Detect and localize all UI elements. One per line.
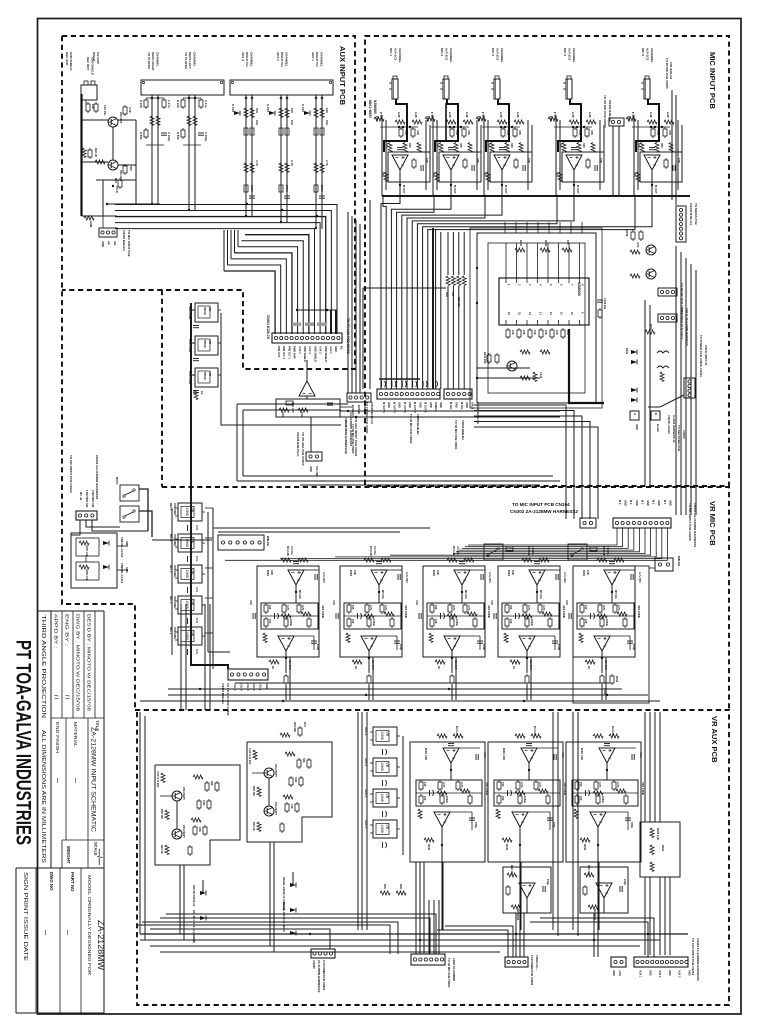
- VR MIC channel 4 gain network: [502, 603, 559, 629]
- svg-text:GND: GND: [398, 402, 402, 408]
- VR AUX channel 2 gain network: [494, 780, 560, 806]
- svg-text:+B: +B: [107, 241, 111, 245]
- svg-text:10K: 10K: [353, 570, 357, 575]
- svg-text:10K: 10K: [255, 120, 259, 125]
- svg-text:CN304 ZA-2128MW HARNESS4: CN304 ZA-2128MW HARNESS4: [95, 455, 99, 500]
- svg-text:CN605: CN605: [682, 430, 686, 439]
- svg-text:10K: 10K: [511, 570, 515, 575]
- svg-text:AUX 3: AUX 3: [678, 970, 681, 978]
- svg-text:33K: 33K: [290, 804, 294, 809]
- bus junction dots: [151, 203, 153, 205]
- svg-text:GND: GND: [657, 500, 661, 506]
- AUX input jack strip B: [230, 80, 333, 95]
- svg-text:4.7K: 4.7K: [286, 605, 290, 611]
- svg-text:R40 150: R40 150: [160, 809, 164, 819]
- preamp 1 transistor Q1: [172, 791, 182, 801]
- svg-text:CN101 B6P3 VL: CN101 B6P3 VL: [704, 345, 708, 366]
- connector CN302 10-pin: [613, 518, 671, 528]
- volume pot VR402: [370, 758, 400, 776]
- svg-text:C 47u: C 47u: [204, 100, 208, 108]
- svg-text:CN302 ZA-2128MW HARNESS2: CN302 ZA-2128MW HARNESS2: [510, 509, 578, 514]
- svg-text:C3 47u: C3 47u: [373, 546, 377, 555]
- svg-text:1K: 1K: [512, 666, 516, 669]
- svg-text:10K: 10K: [511, 330, 515, 335]
- svg-text:TO MIC INPUT PCB: TO MIC INPUT PCB: [127, 230, 131, 256]
- svg-text:10KB: 10KB: [601, 796, 605, 803]
- MIC channel 4 drop wires: [555, 115, 557, 196]
- MIC channel 2 op-amp M12: [439, 152, 481, 182]
- svg-text:R85 330: R85 330: [457, 297, 461, 307]
- svg-text:TO VR MIC PCB CN301: TO VR MIC PCB CN301: [365, 402, 369, 434]
- frame top drop wires: [504, 222, 506, 233]
- svg-text:/ /: / /: [53, 695, 59, 700]
- svg-text:GND SHIELD: GND SHIELD: [91, 57, 95, 75]
- svg-text:PART NO: PART NO: [70, 872, 75, 892]
- svg-text:100p: 100p: [316, 644, 320, 650]
- svg-text:R401 10K: R401 10K: [502, 748, 506, 760]
- svg-text:VOL 1: VOL 1: [259, 683, 263, 691]
- svg-text:DECK LEFT: DECK LEFT: [188, 52, 192, 69]
- svg-text:D101: D101: [625, 348, 629, 355]
- VR MIC channel 5 op-amp A: [604, 570, 620, 585]
- svg-text:TO POWER PCB CN305: TO POWER PCB CN305: [530, 955, 534, 986]
- AUX input jack strip A: [141, 80, 224, 95]
- resistor row inside frame top: [515, 248, 525, 252]
- svg-text:AUX 2: AUX 2: [319, 346, 323, 354]
- svg-text:GND SHIELD: GND SHIELD: [303, 346, 307, 362]
- svg-text:100K: 100K: [89, 221, 93, 227]
- svg-text:ALL DIMENSIONS ARE IN MILL: ALL DIMENSIONS ARE IN MILLIMETERS: [40, 730, 46, 864]
- VR column wires: [171, 508, 173, 655]
- connector CN303 B5B-EH 6-pin: [228, 669, 268, 680]
- svg-text:100K: 100K: [250, 185, 254, 192]
- svg-text:A-2240 HARNESS 12: A-2240 HARNESS 12: [672, 415, 676, 443]
- svg-text:GND: GND: [646, 500, 650, 506]
- volume pot VR401: [370, 727, 400, 745]
- svg-text:DECK RIGHT: DECK RIGHT: [151, 52, 155, 71]
- svg-text:AUX INPUT PCB: AUX INPUT PCB: [338, 46, 347, 106]
- vertical bundle from AUX bus down to CN107: [347, 212, 349, 393]
- svg-text:TO PLAYER: TO PLAYER: [184, 52, 188, 70]
- svg-text:150: 150: [351, 619, 355, 624]
- connector CN201 B128-CH 13-pin: [272, 333, 342, 343]
- svg-text:150: 150: [351, 605, 355, 610]
- svg-text:R24: R24: [114, 178, 118, 183]
- scattered junction dots on buses: [199, 688, 201, 690]
- switch-to-VRMIC link wire: [152, 539, 212, 541]
- VR AUX channel 3 gain network: [572, 780, 638, 806]
- svg-text:4.7u: 4.7u: [195, 649, 199, 655]
- svg-text:M101~M153: M101~M153: [368, 100, 372, 118]
- svg-text:5.6K: 5.6K: [202, 800, 206, 806]
- svg-text:150: 150: [423, 782, 427, 787]
- svg-text:CR02 10K: CR02 10K: [85, 569, 88, 581]
- svg-text:ZA-2128MW HARNESS2(3): ZA-2128MW HARNESS2(3): [344, 420, 348, 454]
- svg-text:2SC2320Y: 2SC2320Y: [274, 764, 278, 777]
- svg-text:GND SHIELD: GND SHIELD: [324, 346, 328, 362]
- svg-text:R352: R352: [615, 676, 619, 683]
- svg-text:47K: 47K: [455, 130, 459, 135]
- thick feed wire left of trim pots: [191, 303, 228, 669]
- svg-text:R3 2.2K: R3 2.2K: [452, 546, 456, 556]
- components under IC: [506, 328, 510, 339]
- svg-text:CHANNEL: CHANNEL: [192, 52, 196, 67]
- resistor cluster under pin group x=281: [269, 111, 275, 116]
- svg-text:R3 2.2K: R3 2.2K: [286, 546, 290, 556]
- channel-output routing to CN105 (rows + drops): [381, 196, 400, 389]
- svg-text:M5 SIG: M5 SIG: [381, 590, 385, 599]
- svg-text:4.7K: 4.7K: [467, 605, 471, 611]
- svg-text:2.2K: 2.2K: [397, 112, 401, 118]
- svg-text:4.7K: 4.7K: [460, 782, 464, 788]
- connector CN403 6-pin: [411, 954, 445, 965]
- svg-text:CAP 4.7J 20V: CAP 4.7J 20V: [156, 771, 160, 788]
- svg-text:GND SHIELD: GND SHIELD: [69, 52, 73, 71]
- AUX left REC OUT jack: [81, 85, 97, 100]
- svg-text:2.2K: 2.2K: [571, 112, 575, 118]
- svg-text:CN61 BL-GATA6: CN61 BL-GATA6: [120, 537, 124, 558]
- svg-text:330: 330: [510, 143, 514, 148]
- svg-text:B+24V: B+24V: [656, 424, 660, 432]
- svg-text:150: 150: [584, 605, 588, 610]
- VR MIC channel 1 enclosure: [257, 566, 319, 657]
- svg-text:VOL 4: VOL 4: [239, 683, 243, 691]
- right side small parts: [645, 330, 655, 334]
- svg-text:CN105 B#18-CH: CN105 B#18-CH: [370, 402, 374, 424]
- VR AUX channel 3 enclosure: [566, 742, 641, 862]
- svg-text:—: —: [72, 778, 78, 783]
- svg-text:RIGHT CH: RIGHT CH: [315, 52, 319, 67]
- svg-text:VR3 10KB: VR3 10KB: [637, 605, 641, 618]
- svg-text:M 4: M 4: [629, 500, 633, 505]
- svg-text:CHANNEL: CHANNEL: [155, 52, 159, 67]
- svg-text:10K: 10K: [325, 108, 329, 113]
- svg-text:C 47u: C 47u: [167, 100, 171, 108]
- svg-text:GND: GND: [635, 500, 639, 506]
- svg-text:CHANNEL: CHANNEL: [572, 48, 576, 63]
- svg-text:AUX 1: AUX 1: [329, 346, 333, 354]
- svg-text:CN106~CN110: CN106~CN110: [667, 415, 671, 434]
- svg-text:TO VR MIC PCB CN302: TO VR MIC PCB CN302: [409, 414, 413, 444]
- svg-text:R421: R421: [661, 845, 665, 852]
- VR AUX right feed verticals: [644, 712, 646, 822]
- IC top pin wires: [505, 243, 507, 278]
- svg-text:GND: GND: [668, 500, 672, 506]
- svg-text:100p: 100p: [474, 822, 478, 828]
- svg-text:150: 150: [501, 796, 505, 801]
- svg-text:VOL 5: VOL 5: [233, 683, 237, 691]
- svg-text:1K: 1K: [271, 666, 275, 669]
- svg-text:47K: 47K: [404, 130, 408, 135]
- svg-text:TO MIC INPUT PCB CN102: TO MIC INPUT PCB CN102: [69, 455, 73, 493]
- svg-text:#LR-3C2: #LR-3C2: [496, 48, 500, 61]
- svg-text:VOLUME: VOLUME: [173, 503, 177, 515]
- svg-text:R3 2.2K: R3 2.2K: [369, 546, 373, 556]
- svg-text:47K: 47K: [590, 130, 594, 135]
- MIC channel 1 drop wires: [381, 115, 383, 196]
- connector CN401 11-pin: [634, 957, 688, 967]
- VR AUX preamp block 2 enclosure: [247, 742, 332, 842]
- svg-text:M OUT: M OUT: [576, 185, 580, 194]
- svg-text:MIC INPUT PCB: MIC INPUT PCB: [708, 52, 717, 109]
- svg-text:4.7K: 4.7K: [369, 605, 373, 611]
- svg-text:R141: R141: [519, 240, 523, 247]
- IC isolation amp block U101: [499, 278, 589, 325]
- MIC ch5 side harness wires: [671, 90, 673, 200]
- svg-text:GND: GND: [265, 683, 269, 689]
- svg-text:330: 330: [459, 143, 463, 148]
- svg-text:R41 1K: R41 1K: [252, 822, 256, 831]
- svg-text:NJM4580: NJM4580: [516, 909, 520, 921]
- svg-text:150: 150: [423, 796, 427, 801]
- svg-text:TO MIC INPUT PCB CN104: TO MIC INPUT PCB CN104: [512, 502, 570, 507]
- volume pot VR404: [370, 820, 400, 838]
- svg-text:VR3 10KB: VR3 10KB: [404, 605, 408, 618]
- svg-text:GND: GND: [635, 424, 639, 430]
- svg-text:VOLUME: VOLUME: [173, 565, 177, 577]
- svg-text:10K: 10K: [91, 104, 95, 109]
- svg-text:M OUT: M OUT: [504, 185, 508, 194]
- svg-text:GND: GND: [387, 402, 391, 408]
- svg-text:MC +B: MC +B: [79, 492, 83, 500]
- svg-text:4.7K: 4.7K: [617, 605, 621, 611]
- switch S302: [568, 544, 587, 560]
- svg-text:M 5: M 5: [618, 500, 622, 505]
- VR MIC channel 1 op-amp A: [288, 570, 304, 585]
- svg-text:R410: R410: [427, 844, 431, 851]
- MIC channel 3 op-amp M13: [490, 152, 532, 182]
- VR MIC channel 2 op-amp B: [361, 636, 377, 651]
- svg-text:R40 150: R40 150: [252, 786, 256, 796]
- svg-text:2.2K: 2.2K: [666, 112, 670, 118]
- junction bar above CN105: [379, 378, 420, 380]
- svg-text:CN303 B5B-EH: CN303 B5B-EH: [221, 683, 225, 704]
- svg-text:TO VR MIC PCB CN303: TO VR MIC PCB CN303: [351, 424, 355, 454]
- svg-text:4.7K: 4.7K: [616, 782, 620, 788]
- svg-text:D43 BL-C9142-AF (RED): D43 BL-C9142-AF (RED): [282, 902, 286, 932]
- svg-text:10KB: 10KB: [605, 619, 609, 626]
- svg-text:100p: 100p: [482, 644, 486, 650]
- pin group B1 wires: [245, 95, 247, 217]
- svg-text:R4 2.2K: R4 2.2K: [611, 726, 615, 736]
- svg-text:M 3: M 3: [640, 500, 644, 505]
- svg-text:B2B-PH: B2B-PH: [677, 556, 681, 566]
- svg-text:4.7u 50V: 4.7u 50V: [638, 572, 642, 583]
- svg-text:CHANNEL: CHANNEL: [319, 52, 323, 67]
- VR AUX summing op-amp block 1: [503, 867, 551, 913]
- svg-text:C30: C30: [415, 600, 419, 605]
- svg-text:AUX 3: AUX 3: [308, 346, 312, 354]
- VR AUX channel 1 enclosure: [410, 742, 485, 862]
- svg-text:GND: GND: [688, 970, 691, 976]
- svg-text:100K: 100K: [320, 185, 324, 192]
- svg-text:R301: R301: [349, 570, 353, 577]
- svg-text:4.7u 50V: 4.7u 50V: [405, 572, 409, 583]
- svg-text:REC OUT: REC OUT: [86, 57, 90, 70]
- svg-text:TO VR AUX PCB CN402: TO VR AUX PCB CN402: [301, 432, 305, 466]
- svg-text:R142: R142: [544, 240, 548, 247]
- svg-text:R401 10K: R401 10K: [424, 748, 428, 760]
- svg-text:100p: 100p: [630, 822, 634, 828]
- svg-text:50KB: 50KB: [203, 340, 207, 349]
- svg-text:4.7K: 4.7K: [384, 605, 388, 611]
- svg-text:R45: R45: [383, 884, 387, 889]
- svg-text:M5 SIG: M5 SIG: [614, 590, 618, 599]
- MIC channel 1 op-amp M11: [388, 152, 430, 182]
- svg-text:2.2K: 2.2K: [649, 112, 653, 118]
- trim pot box VR201: [195, 303, 218, 322]
- resistor R210: [194, 390, 198, 400]
- svg-text:B: B: [654, 413, 658, 415]
- AUX left wires: [82, 119, 109, 121]
- svg-text:GND SHIELD: GND SHIELD: [313, 346, 317, 362]
- svg-text:47K: 47K: [416, 130, 420, 135]
- connector CN304 2-pin: [580, 518, 596, 528]
- summing cluster box: [276, 399, 340, 417]
- svg-text:M5 SIG: M5 SIG: [298, 590, 302, 599]
- VR MIC channel 2 enclosure: [340, 566, 402, 657]
- svg-text:4.7u: 4.7u: [195, 587, 199, 593]
- MIC channel 5 drop wires: [633, 115, 635, 196]
- right-edge vertical bundle: [675, 246, 677, 515]
- svg-text:56K: 56K: [302, 758, 306, 763]
- svg-text:2SC1815: 2SC1815: [119, 112, 123, 124]
- svg-text:#LR-3C2: #LR-3C2: [394, 48, 398, 61]
- svg-text:CN404 2A-...: CN404 2A-...: [535, 955, 539, 971]
- svg-text:VOLUME: VOLUME: [173, 596, 177, 608]
- volume pot VR305: [175, 627, 205, 645]
- svg-text:CAP 4.7J 20V: CAP 4.7J 20V: [248, 748, 252, 765]
- svg-text:TO PLAYER: TO PLAYER: [147, 52, 151, 70]
- strip corner pins: [142, 81, 144, 83]
- svg-text:C30: C30: [249, 600, 253, 605]
- transistor Q202: [108, 160, 118, 170]
- svg-text:R 10K: R 10K: [139, 100, 143, 108]
- VR MIC channel 3 output tail: [435, 660, 445, 664]
- transistor Q102: [646, 269, 656, 279]
- VR MIC channel 4 op-amp A: [529, 570, 545, 585]
- VR MIC channel 2 gain network: [344, 603, 401, 629]
- svg-text:CHANNEL: CHANNEL: [449, 48, 453, 63]
- svg-text:330: 330: [408, 143, 412, 148]
- volume pot VR303: [175, 565, 205, 583]
- svg-text:NC: NC: [339, 346, 343, 350]
- MIC channel 5 thick signal trace: [636, 99, 659, 152]
- svg-text:M OUT: M OUT: [402, 185, 406, 194]
- svg-text:330: 330: [660, 143, 664, 148]
- svg-text:TO MIC INPUT PCB CN105: TO MIC INPUT PCB CN105: [688, 503, 692, 541]
- svg-text:1K: 1K: [200, 391, 204, 395]
- thick bundle wire: [432, 228, 434, 389]
- svg-text:R401 10K: R401 10K: [580, 748, 584, 760]
- svg-text:VR4 10KB: VR4 10KB: [641, 782, 645, 795]
- dashed boundary AUX INPUT PCB region: [62, 36, 355, 710]
- svg-text:CN108 B2B-PH-K: CN108 B2B-PH-K: [296, 432, 300, 457]
- preamp block 2 extra top resistors: [280, 733, 290, 737]
- pin group B2 wires: [280, 95, 282, 223]
- op-amp U201 apex-up: [299, 381, 315, 396]
- svg-text:100p: 100p: [632, 644, 636, 650]
- left elbow risers: [223, 230, 225, 271]
- svg-text:R301: R301: [582, 570, 586, 577]
- svg-text:CN301 ZA-2128MW HARNESS1: CN301 ZA-2128MW HARNESS1: [693, 503, 697, 548]
- svg-text:DWG BY : MINOTO W DEC/15/'0: DWG BY : MINOTO W DEC/15/'08: [76, 614, 81, 712]
- svg-text:100p: 100p: [623, 879, 627, 885]
- resistor cluster under pin group x=316: [304, 111, 310, 116]
- svg-text:R41 1K: R41 1K: [160, 845, 164, 854]
- svg-text:10KB: 10KB: [455, 619, 459, 626]
- svg-text:GND: GND: [465, 402, 469, 408]
- svg-text:1K4: 1K4: [303, 722, 307, 727]
- svg-text:4.7K: 4.7K: [301, 605, 305, 611]
- svg-text:150: 150: [584, 619, 588, 624]
- VR AUX summing op-amp block 2: [580, 867, 628, 913]
- svg-text:CN62 BL-GATA6: CN62 BL-GATA6: [120, 563, 124, 584]
- transistor Q101: [646, 245, 656, 255]
- MIC channel 2 input jack J102: [440, 76, 449, 99]
- volume pot VR301: [175, 503, 205, 521]
- svg-text:100p: 100p: [546, 879, 550, 885]
- trim pot box VR202: [195, 336, 218, 355]
- ch5 tail parts: [610, 674, 614, 685]
- CN201 bead row: [297, 309, 337, 311]
- svg-text:CH CMP: CH CMP: [96, 52, 100, 64]
- resistor cluster under pin group x=246: [234, 111, 240, 116]
- svg-text:CN201 B128-CH: CN201 B128-CH: [266, 315, 270, 340]
- svg-text:D 1SS: D 1SS: [231, 104, 235, 112]
- VR MIC channel 1 op-amp B: [278, 636, 294, 651]
- svg-text:NJM2068: NJM2068: [577, 282, 581, 296]
- svg-text:2.2K: 2.2K: [516, 112, 520, 118]
- svg-text:TO VR AUX PCB CN403: TO VR AUX PCB CN403: [226, 683, 230, 716]
- svg-text:M SIG: M SIG: [460, 402, 464, 409]
- svg-text:CN105 BHB-EH: CN105 BHB-EH: [461, 420, 465, 440]
- svg-text:150: 150: [434, 605, 438, 610]
- svg-text:4.7K: 4.7K: [255, 160, 259, 166]
- MIC channel 3 input jack J103: [491, 76, 500, 99]
- svg-text:CN305 B11B-EH: CN305 B11B-EH: [416, 414, 420, 435]
- svg-text:VR3 10KB: VR3 10KB: [487, 605, 491, 618]
- svg-text:APP'D BY :: APP'D BY :: [54, 614, 59, 648]
- svg-text:TO VR MIC PCB CN302: TO VR MIC PCB CN302: [603, 95, 607, 128]
- switch wiring: [139, 489, 148, 531]
- svg-text:150: 150: [501, 782, 505, 787]
- svg-text:B6B-PH: B6B-PH: [266, 536, 270, 546]
- harness staircase to CN302: [474, 405, 566, 519]
- svg-text:M 2: M 2: [652, 500, 656, 505]
- svg-text:2.2K: 2.2K: [588, 112, 592, 118]
- svg-text:TO VR MIC PCB CN305: TO VR MIC PCB CN305: [665, 58, 669, 89]
- svg-text:4.7K: 4.7K: [520, 782, 524, 788]
- svg-text:#LR-3C2: #LR-3C2: [646, 48, 650, 61]
- VR AUX channel 3 op-amp A: [599, 748, 615, 763]
- svg-text:MODEL ORIGINALLY DESIGNED FOR: MODEL ORIGINALLY DESIGNED FOR: [87, 875, 92, 975]
- svg-text:10K: 10K: [566, 240, 570, 245]
- svg-text:10K: 10K: [586, 570, 590, 575]
- svg-text:MIC 5: MIC 5: [641, 48, 645, 56]
- svg-text:MIC 4: MIC 4: [563, 48, 567, 56]
- svg-text:4.7K: 4.7K: [538, 782, 542, 788]
- staircase harness wires into CN201: [224, 271, 275, 334]
- svg-text:CHANNEL: CHANNEL: [650, 48, 654, 63]
- volume pot VR302: [175, 534, 205, 552]
- svg-text:1 MUTING SW: 1 MUTING SW: [85, 490, 89, 508]
- svg-text:10KB: 10KB: [523, 796, 527, 803]
- svg-text:4.7u 50V: 4.7u 50V: [488, 572, 492, 583]
- svg-text:4.7K: 4.7K: [602, 605, 606, 611]
- svg-text:GND: GND: [439, 402, 443, 408]
- svg-text:R4 2.2K: R4 2.2K: [533, 726, 537, 736]
